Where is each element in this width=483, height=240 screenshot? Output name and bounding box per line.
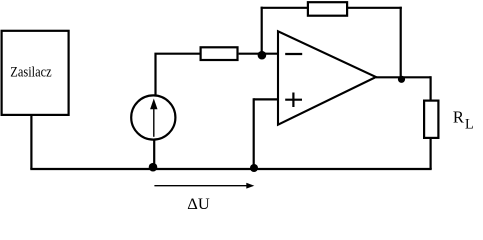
svg-text:L: L — [465, 116, 474, 132]
wire from input resistor to op-amp inverting input, node junction — [239, 53, 278, 55]
wire from current source bottom to bottom rail — [153, 140, 155, 170]
delta-U arrow — [154, 183, 254, 189]
svg-text:R: R — [453, 108, 464, 127]
wire op-amp output — [376, 76, 431, 78]
wire feedback top horizontal — [261, 7, 402, 9]
op-amp inverting input minus sign — [285, 53, 302, 55]
wire bottom rail — [30, 168, 431, 170]
junction dot at current source on bottom rail — [149, 163, 158, 172]
resistor R1 input — [201, 47, 238, 60]
wire feedback right vertical to output node — [400, 7, 402, 79]
svg-text:Zasilacz: Zasilacz — [10, 64, 51, 80]
op-amp U1 triangle — [278, 31, 376, 124]
op-amp non-inverting input plus sign — [285, 93, 302, 108]
wire feedback left vertical — [261, 7, 263, 55]
current source circle — [131, 95, 175, 139]
svg-text:ΔU: ΔU — [187, 196, 210, 213]
power supply box Zasilacz — [2, 31, 69, 115]
wire from Zasilacz bottom to bottom rail — [30, 115, 32, 169]
resistor R2 feedback — [308, 2, 347, 16]
junction dot at inverting input node — [258, 51, 267, 60]
junction dot at output node — [398, 76, 405, 83]
wire output corner down to load resistor RL — [430, 76, 432, 101]
wire from current source top to input resistor — [156, 54, 200, 96]
resistor RL load — [424, 101, 438, 138]
junction dot at non-inverting branch on bottom rail — [250, 164, 258, 172]
label RL — [453, 108, 474, 133]
wire op-amp non-inverting input horizontal — [254, 98, 278, 100]
wire from non-inverting input down to bottom rail — [253, 98, 255, 169]
wire from load resistor RL bottom to bottom rail — [430, 138, 432, 170]
current source arrow — [150, 99, 157, 137]
